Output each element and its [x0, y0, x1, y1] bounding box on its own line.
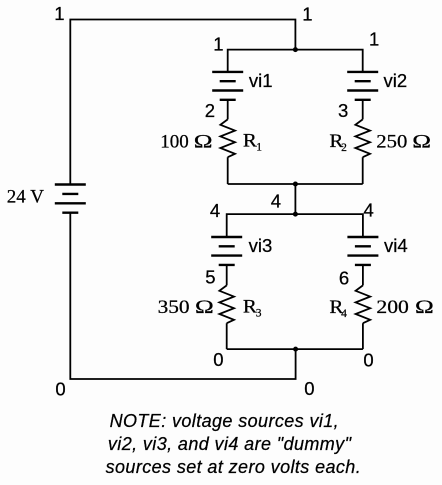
svg-text:5: 5 — [205, 267, 215, 288]
svg-text:24 V: 24 V — [7, 187, 44, 208]
svg-text:1: 1 — [369, 29, 379, 50]
junction dot node 4 lower — [293, 212, 298, 217]
wire vi4 to R4 — [362, 265, 364, 286]
battery V1 24 V — [55, 185, 86, 213]
svg-text:3: 3 — [338, 100, 348, 121]
wire node 0 branch rail — [227, 348, 363, 350]
svg-text:1: 1 — [256, 142, 262, 154]
svg-text:vi4: vi4 — [384, 235, 408, 256]
resistor R4 — [356, 285, 371, 323]
svg-text:Ω: Ω — [194, 130, 213, 151]
svg-text:1: 1 — [302, 3, 312, 24]
resistor R2 — [355, 119, 370, 157]
wire node 1: battery top, up left side, across top, down to junction — [70, 20, 295, 185]
svg-text:NOTE: voltage sources vi1,: NOTE: voltage sources vi1, — [110, 411, 340, 431]
wire node 4 upper rail — [228, 183, 363, 185]
wire R3 to node 0 — [226, 323, 228, 349]
wire vi1 to R1 — [227, 100, 229, 120]
dummy source vi2 — [347, 72, 378, 100]
svg-text:6: 6 — [339, 268, 349, 289]
svg-text:1: 1 — [54, 3, 64, 24]
svg-text:100: 100 — [160, 131, 189, 152]
resistor R3 — [219, 285, 234, 323]
dummy source vi1 — [212, 72, 243, 100]
svg-text:vi2: vi2 — [384, 70, 408, 91]
svg-text:350: 350 — [158, 297, 190, 318]
dummy source vi4 — [347, 237, 378, 265]
svg-text:R: R — [243, 131, 257, 152]
junction dot node 4 upper — [293, 182, 298, 187]
svg-text:3: 3 — [256, 308, 262, 320]
svg-text:0: 0 — [213, 349, 223, 370]
wire R2 to node 4 — [362, 157, 364, 184]
svg-text:sources set at zero volts each: sources set at zero volts each. — [106, 457, 362, 477]
wire R4 to node 0 — [362, 323, 364, 349]
svg-text:2: 2 — [341, 142, 347, 154]
wire vi2 to R2 — [362, 100, 364, 120]
svg-text:4: 4 — [364, 199, 374, 220]
svg-text:0: 0 — [55, 379, 65, 400]
wire node 0 return: down, left, up to battery bottom — [70, 213, 295, 379]
svg-text:4: 4 — [341, 308, 347, 320]
dummy source vi3 — [211, 237, 242, 265]
svg-text:200: 200 — [376, 297, 409, 318]
svg-text:4: 4 — [210, 200, 220, 221]
svg-text:2: 2 — [205, 100, 215, 121]
wire node 1 branch: down to vi1, across, down to vi2 — [228, 50, 363, 72]
svg-text:4: 4 — [271, 190, 281, 211]
wire vi3 to R3 — [226, 265, 228, 286]
svg-text:1: 1 — [213, 33, 223, 54]
svg-text:250: 250 — [376, 131, 407, 152]
wire R1 to node 4 — [227, 157, 229, 184]
resistor R1 — [220, 119, 235, 157]
junction dot node 0 — [293, 347, 298, 352]
wire node 4 lower rail: down to vi3, across, down to vi4 — [227, 214, 363, 237]
svg-text:0: 0 — [363, 349, 373, 370]
junction dot node 1 — [293, 47, 298, 52]
svg-text:0: 0 — [304, 378, 314, 399]
svg-text:Ω: Ω — [195, 296, 214, 317]
svg-text:vi1: vi1 — [249, 70, 273, 91]
svg-text:vi3: vi3 — [249, 235, 273, 256]
svg-text:Ω: Ω — [412, 130, 431, 151]
wire node 4 link — [294, 184, 296, 214]
svg-text:vi2, vi3, and vi4 are "dummy": vi2, vi3, and vi4 are "dummy" — [108, 434, 353, 454]
svg-text:Ω: Ω — [415, 296, 434, 317]
